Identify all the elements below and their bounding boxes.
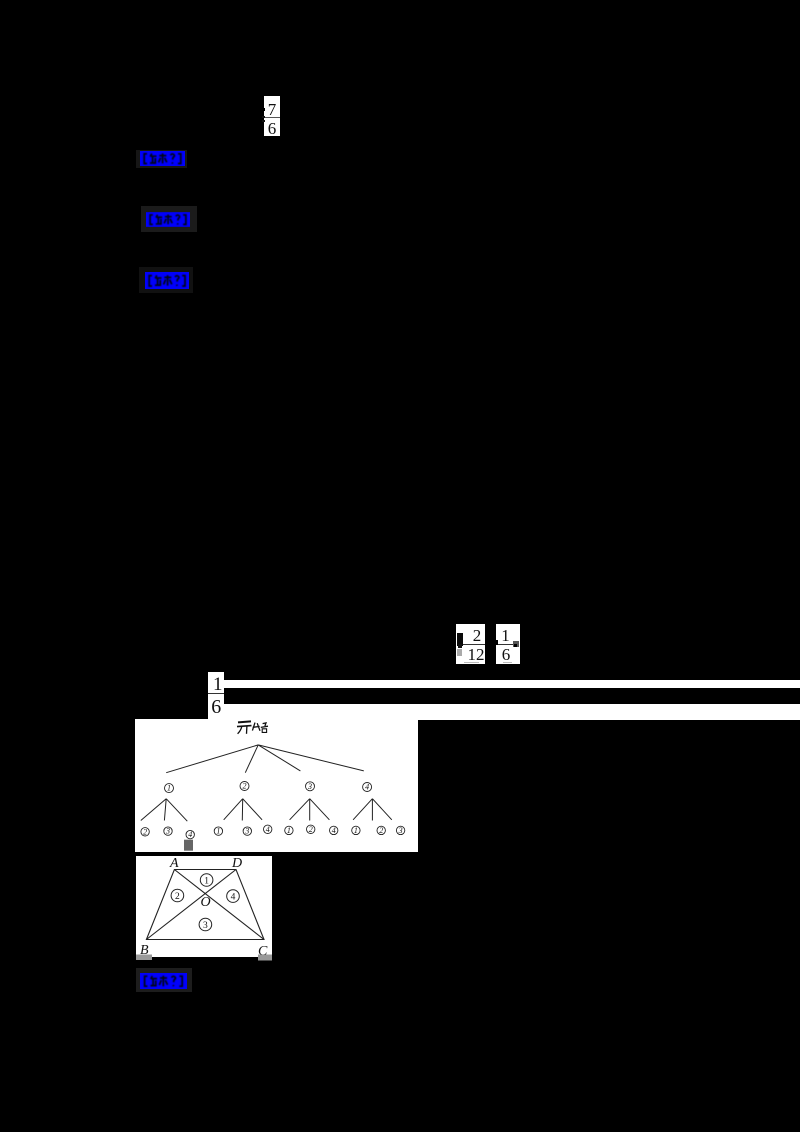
svg-text:1: 1 [216,827,220,836]
svg-text:2: 2 [143,828,147,837]
svg-text:4: 4 [365,783,369,792]
svg-text:2: 2 [175,891,180,901]
svg-text:4: 4 [332,826,336,835]
svg-text:3: 3 [165,827,170,836]
svg-text:3: 3 [244,827,249,836]
svg-text:1: 1 [167,784,171,793]
svg-text:1: 1 [204,876,209,886]
svg-text:D: D [231,856,242,871]
svg-text:4: 4 [231,892,236,902]
svg-text:3: 3 [307,782,312,791]
svg-text:1: 1 [354,826,358,835]
svg-text:A: A [169,856,179,871]
svg-text:3: 3 [203,920,208,930]
svg-text:2: 2 [379,826,383,835]
svg-text:2: 2 [309,825,313,834]
svg-text:3: 3 [398,826,403,835]
svg-text:4: 4 [188,830,192,839]
svg-text:O: O [201,895,211,910]
svg-text:2: 2 [243,782,247,791]
svg-text:4: 4 [266,825,270,834]
svg-text:1: 1 [287,826,291,835]
